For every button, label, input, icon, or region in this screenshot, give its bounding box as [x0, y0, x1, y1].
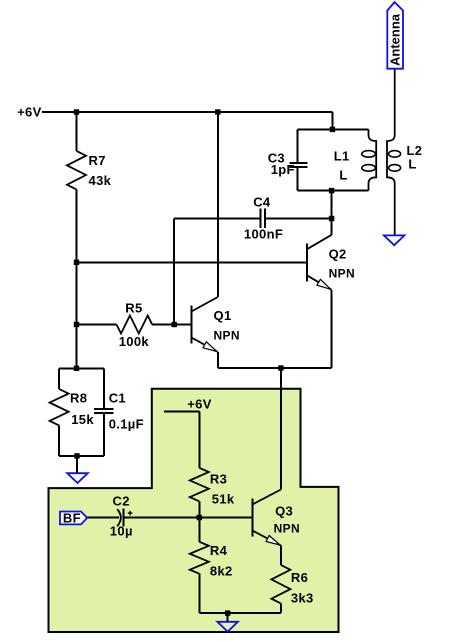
svg-text:C4: C4 — [253, 195, 271, 210]
svg-text:BF: BF — [63, 510, 81, 525]
svg-text:R5: R5 — [125, 301, 142, 316]
svg-text:10µ: 10µ — [110, 524, 133, 539]
svg-text:43k: 43k — [89, 173, 112, 188]
svg-text:+6V: +6V — [187, 397, 212, 412]
svg-text:R8: R8 — [70, 390, 87, 405]
svg-text:C2: C2 — [113, 494, 130, 509]
svg-text:Antenna: Antenna — [388, 13, 403, 66]
svg-text:NPN: NPN — [274, 522, 300, 536]
svg-text:100nF: 100nF — [244, 227, 283, 242]
svg-text:51k: 51k — [212, 492, 235, 507]
svg-text:Q1: Q1 — [214, 308, 232, 323]
svg-text:L: L — [339, 168, 347, 183]
svg-text:R4: R4 — [210, 543, 228, 558]
svg-text:0.1µF: 0.1µF — [109, 417, 144, 432]
svg-text:1pF: 1pF — [271, 162, 295, 177]
svg-text:C1: C1 — [109, 390, 126, 405]
svg-text:L: L — [408, 156, 416, 171]
svg-text:15k: 15k — [71, 412, 94, 427]
svg-text:8k2: 8k2 — [210, 564, 233, 579]
svg-text:NPN: NPN — [329, 267, 355, 281]
svg-text:3k3: 3k3 — [291, 590, 314, 605]
svg-text:+6V: +6V — [17, 105, 42, 120]
svg-text:Q3: Q3 — [275, 504, 293, 519]
svg-text:R3: R3 — [210, 472, 227, 487]
svg-text:R6: R6 — [291, 570, 308, 585]
svg-text:NPN: NPN — [214, 329, 240, 343]
svg-text:100k: 100k — [119, 334, 150, 349]
svg-text:Q2: Q2 — [329, 247, 347, 262]
svg-text:R7: R7 — [89, 153, 106, 168]
svg-text:L1: L1 — [334, 148, 350, 163]
